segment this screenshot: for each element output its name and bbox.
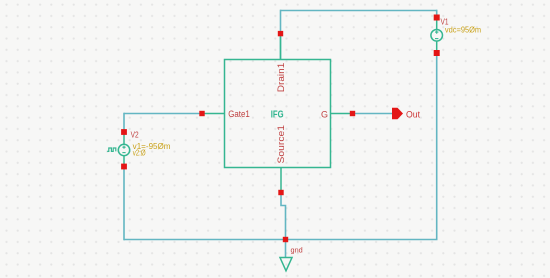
svg-text:G: G xyxy=(321,109,328,119)
svg-text:vdc=95Øm: vdc=95Øm xyxy=(445,26,482,35)
svg-text:Gate1: Gate1 xyxy=(228,109,250,119)
svg-text:Drain1: Drain1 xyxy=(276,63,286,93)
svg-text:Source1: Source1 xyxy=(276,125,286,164)
svg-text:IFG: IFG xyxy=(271,108,284,120)
svg-text:v2:Ø: v2:Ø xyxy=(133,148,146,157)
svg-text:Out: Out xyxy=(406,109,420,120)
svg-text:V2: V2 xyxy=(131,130,139,139)
svg-text:gnd: gnd xyxy=(291,246,303,255)
